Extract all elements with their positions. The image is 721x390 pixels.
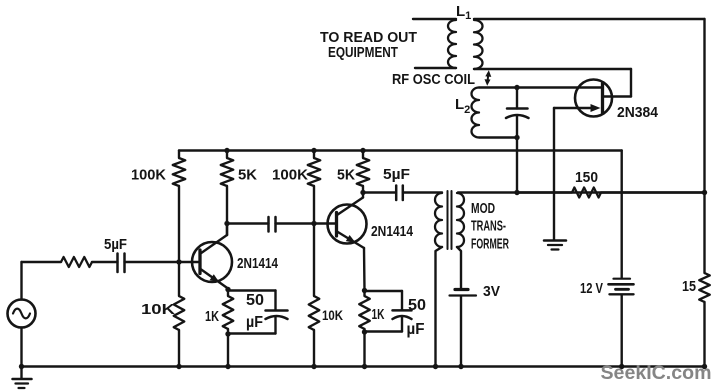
svg-text:100K: 100K: [272, 167, 308, 184]
svg-text:5K: 5K: [238, 167, 257, 184]
svg-text:50: 50: [246, 292, 264, 309]
svg-text:EQUIPMENT: EQUIPMENT: [328, 45, 398, 61]
svg-text:2N384: 2N384: [617, 104, 659, 121]
svg-text:12 V: 12 V: [580, 280, 603, 297]
svg-text:10K: 10K: [141, 301, 175, 318]
svg-text:150: 150: [575, 169, 598, 186]
svg-text:15: 15: [682, 278, 696, 295]
svg-text:SeekIC.com: SeekIC.com: [601, 363, 712, 384]
svg-text:5K: 5K: [337, 167, 355, 184]
svg-text:5µF: 5µF: [104, 236, 127, 253]
svg-text:5µF: 5µF: [383, 166, 410, 183]
svg-text:TO READ OUT: TO READ OUT: [320, 30, 417, 46]
svg-text:µF: µF: [246, 314, 263, 331]
svg-text:RF OSC COIL: RF OSC COIL: [392, 72, 475, 88]
svg-text:50: 50: [408, 297, 426, 314]
svg-text:1K: 1K: [205, 308, 219, 325]
svg-text:MOD: MOD: [471, 201, 495, 217]
svg-text:2N1414: 2N1414: [237, 255, 279, 272]
svg-text:2N1414: 2N1414: [371, 223, 414, 240]
svg-text:100K: 100K: [131, 167, 166, 184]
svg-text:1K: 1K: [372, 307, 385, 323]
svg-text:µF: µF: [407, 321, 425, 338]
svg-text:10K: 10K: [322, 307, 343, 323]
svg-text:TRANS-: TRANS-: [471, 219, 506, 235]
svg-text:FORMER: FORMER: [471, 237, 509, 253]
svg-text:3V: 3V: [483, 283, 500, 300]
